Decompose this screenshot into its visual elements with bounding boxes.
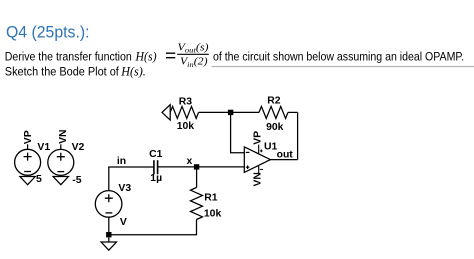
svg-text:1µ: 1µ [150,173,162,184]
svg-text:VN: VN [253,172,264,186]
svg-text:of the circuit shown below ass: of the circuit shown below assuming an i… [213,49,464,63]
wire V1 bottom stub [27,175,29,176]
fraction Vout(s)/Vin(2) [177,42,209,68]
voltage source V3 [95,191,122,218]
ground (V1) [20,177,35,185]
svg-text:Vout(s): Vout(s) [178,42,210,54]
voltage source V1 [15,149,41,175]
svg-text:V1: V1 [37,142,50,153]
wire node x to non-inverting input [197,166,245,168]
svg-text:-5: -5 [72,175,81,186]
problem text line 1 [5,48,176,63]
separator line [212,66,474,68]
junction (R3/R2/inverting input) [228,110,233,115]
wire in node (V3 top to C1) [109,167,154,191]
wire V3 ground stub [108,237,110,242]
svg-text:Vin(2): Vin(2) [180,57,208,69]
voltage source V2 [48,149,74,175]
wire output [270,159,297,161]
svg-text:VP: VP [252,131,263,145]
svg-text:V3: V3 [118,183,131,194]
svg-text:10k: 10k [177,121,195,132]
wire junction to inverting input [231,112,245,152]
wire junction to R2 [231,111,259,113]
svg-text:10k: 10k [204,209,222,220]
svg-text:U1: U1 [264,142,278,153]
wire R1 top lead [196,167,198,188]
wire R2 right lead [288,111,298,113]
wire R1 bottom to V3 bottom [109,220,197,235]
svg-text:Sketch the Bode Plot of: Sketch the Bode Plot of [5,64,119,78]
wire C1 to node x [158,166,197,168]
svg-text:VN: VN [58,129,69,143]
wire V3 bottom stub [108,217,110,235]
svg-text:5: 5 [36,174,42,185]
problem text line 2 [5,63,146,78]
svg-text:R2: R2 [267,95,281,106]
wire V2 bottom stub [60,175,62,176]
svg-text:V: V [120,217,127,228]
wire V2 top stub [60,144,62,149]
svg-text:in: in [117,156,126,167]
resistor R1 [191,188,203,220]
ground (left of R3) [162,105,170,120]
svg-text:R3: R3 [179,96,193,107]
resistor R3 [170,106,198,118]
wire feedback down [297,112,299,159]
svg-text:V2: V2 [72,142,85,153]
ground (V3) [101,242,116,250]
junction V3 bottom [106,232,111,237]
wire V1 top stub [27,144,29,149]
wire R3 to junction [199,111,231,113]
resistor R2 [259,106,288,118]
svg-text:90k: 90k [266,122,284,133]
svg-text:H(s).: H(s). [120,63,145,78]
ground (V2) [53,177,68,185]
svg-text:out: out [277,150,294,161]
junction node x [194,164,199,169]
svg-text:VP: VP [23,130,34,144]
svg-text:Q4 (25pts.):: Q4 (25pts.): [6,23,90,42]
svg-text:C1: C1 [149,149,163,160]
op-amp U1 [244,145,270,174]
svg-text:H(s): H(s) [135,48,157,63]
svg-text:R1: R1 [204,193,218,204]
svg-text:Derive the transfer function: Derive the transfer function [5,49,132,63]
svg-text:x: x [187,156,193,167]
capacitor C1 [154,160,158,174]
